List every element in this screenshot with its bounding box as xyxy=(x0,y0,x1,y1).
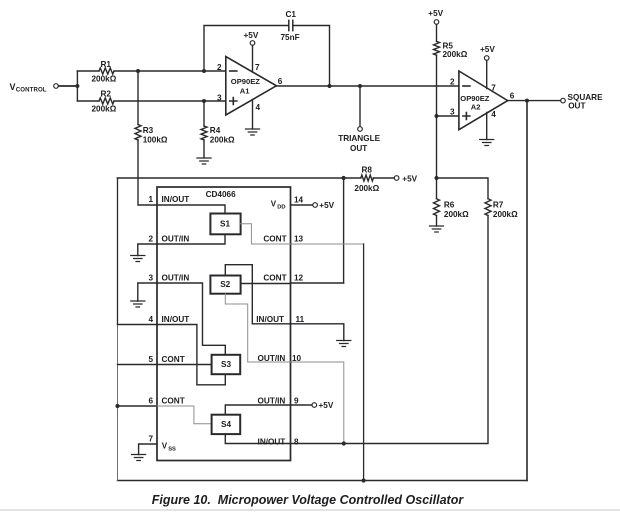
svg-text:CONT: CONT xyxy=(162,355,185,364)
svg-text:R5: R5 xyxy=(443,41,454,50)
wire R6 junction to R7 top xyxy=(437,178,489,199)
ground pin11 xyxy=(337,341,351,347)
switch S1 xyxy=(210,214,240,235)
wire top branch to R1 xyxy=(77,70,99,72)
resistor R8 xyxy=(361,175,374,181)
svg-text:9: 9 xyxy=(294,397,299,406)
wire S2 bottom to pin10 (gray) xyxy=(225,294,290,362)
wire pin13 vertical to bus xyxy=(363,244,365,481)
svg-text:CONT: CONT xyxy=(162,397,185,406)
svg-text:100kΩ: 100kΩ xyxy=(143,136,168,145)
node junction Vcontrol split xyxy=(75,84,79,88)
node junction pin10 line on pin8 wire xyxy=(342,441,346,445)
wire pin3 internal to S3 top xyxy=(157,283,225,355)
svg-text:IN/OUT: IN/OUT xyxy=(162,195,190,204)
node junction C1 right on output xyxy=(328,84,332,88)
wire C1 right to output xyxy=(293,26,330,87)
svg-text:V: V xyxy=(10,82,16,92)
node junction A2 output feedback xyxy=(525,99,529,103)
svg-text:200kΩ: 200kΩ xyxy=(443,50,468,59)
svg-text:3: 3 xyxy=(450,108,455,117)
wire S4 bottom to pin8 xyxy=(225,434,290,443)
node junction R4 top xyxy=(202,99,206,103)
wire CD4066 pin6 stub xyxy=(118,405,158,407)
wire R7 column down to pin8 row xyxy=(291,216,489,444)
svg-text:S1: S1 xyxy=(220,220,230,229)
op-amp A1 xyxy=(226,57,277,116)
wire A1 output xyxy=(276,85,459,87)
switch S4 xyxy=(212,415,241,434)
wire A2 pin3 xyxy=(437,115,459,117)
resistor R3 xyxy=(135,125,141,141)
wire R8 junction down to pin12 xyxy=(343,178,345,283)
node +5V terminal pin9 xyxy=(312,403,317,408)
svg-text:A2: A2 xyxy=(471,103,481,112)
wire triangle out drop xyxy=(359,86,361,127)
node +5V terminal R5 xyxy=(434,20,439,25)
svg-text:IN/OUT: IN/OUT xyxy=(256,315,284,324)
wire S1 bottom to pin2 xyxy=(157,234,225,244)
svg-text:7: 7 xyxy=(148,435,153,444)
wire R6 to ground xyxy=(436,216,438,227)
svg-text:SS: SS xyxy=(168,447,176,453)
svg-text:200kΩ: 200kΩ xyxy=(354,184,379,193)
svg-text:R7: R7 xyxy=(493,201,504,210)
svg-text:200kΩ: 200kΩ xyxy=(210,136,235,145)
svg-text:200kΩ: 200kΩ xyxy=(493,210,518,219)
node +5V terminal pin14 xyxy=(313,203,318,208)
node junction C1 left / pin2 xyxy=(202,69,206,73)
svg-text:S2: S2 xyxy=(220,280,230,289)
svg-text:4: 4 xyxy=(256,103,261,112)
svg-text:11: 11 xyxy=(296,315,305,324)
svg-text:CONT: CONT xyxy=(263,235,286,244)
node junction A2 pin3 xyxy=(435,114,439,118)
node junction pin13 line on bus xyxy=(362,478,366,482)
wire CD4066 pin9 to +5V xyxy=(291,404,313,406)
svg-text:2: 2 xyxy=(148,235,153,244)
wire bottom branch to R2 xyxy=(77,100,99,102)
svg-text:R8: R8 xyxy=(362,165,373,174)
svg-text:2: 2 xyxy=(450,78,455,87)
op-amp A2 xyxy=(459,71,508,130)
node TRIANGLE OUT terminal xyxy=(358,127,363,132)
svg-text:5: 5 xyxy=(148,355,153,364)
svg-text:A1: A1 xyxy=(240,87,250,96)
wire R8 to +5V xyxy=(373,177,394,179)
wire S1 control to pin13 (gray) xyxy=(241,224,291,244)
resistor R2 xyxy=(99,98,114,104)
svg-text:OUT: OUT xyxy=(350,144,367,153)
svg-text:7: 7 xyxy=(491,84,496,93)
svg-text:14: 14 xyxy=(294,195,304,204)
svg-text:CONT: CONT xyxy=(263,274,286,283)
svg-text:S4: S4 xyxy=(221,420,231,429)
svg-text:6: 6 xyxy=(148,397,153,406)
wire R5 top xyxy=(436,24,438,41)
svg-text:200kΩ: 200kΩ xyxy=(444,210,469,219)
svg-text:R3: R3 xyxy=(143,126,154,135)
svg-text:75nF: 75nF xyxy=(281,33,300,42)
wire bottom bus xyxy=(118,480,528,482)
wire S4 top to pin9 xyxy=(225,405,290,415)
node +5V terminal R8 xyxy=(394,176,399,181)
svg-text:4: 4 xyxy=(148,315,153,324)
wire splitter vertical xyxy=(76,71,78,101)
resistor R5 xyxy=(434,41,440,55)
svg-text:OUT/IN: OUT/IN xyxy=(258,354,286,363)
wire A1 pin7 xyxy=(252,45,254,71)
node junction R6 top xyxy=(435,176,439,180)
wire pin1 internal to S1 top xyxy=(157,205,225,214)
svg-text:+5V: +5V xyxy=(244,31,259,40)
ground pin7 xyxy=(132,455,146,461)
svg-text:TRIANGLE: TRIANGLE xyxy=(338,134,380,143)
svg-text:4: 4 xyxy=(491,110,496,119)
svg-text:C1: C1 xyxy=(286,10,297,19)
svg-text:IN/OUT: IN/OUT xyxy=(258,437,286,446)
svg-text:R4: R4 xyxy=(210,126,221,135)
svg-text:R6: R6 xyxy=(444,201,455,210)
svg-text:SQUARE: SQUARE xyxy=(568,93,604,102)
resistor R4 xyxy=(201,126,207,140)
wire R3 column upper xyxy=(137,71,139,125)
svg-text:+5V: +5V xyxy=(480,45,495,54)
node junction pin6 on left vertical xyxy=(115,404,119,408)
node SQUARE OUT terminal xyxy=(561,98,566,103)
svg-text:Figure 10. Micropower Voltage: Figure 10. Micropower Voltage Controlled… xyxy=(152,493,465,507)
svg-text:CONTROL: CONTROL xyxy=(16,87,47,94)
svg-text:3: 3 xyxy=(148,274,153,283)
wire CD4066 pin12 stub xyxy=(291,282,344,284)
wire R2 to A1 pin3 xyxy=(114,100,226,102)
wire R4 column xyxy=(203,101,205,126)
wire CD4066 pin3 stub to ground xyxy=(138,283,157,301)
wire R4 to ground xyxy=(203,140,205,158)
wire S2 top to pin11 xyxy=(225,265,290,324)
ground R6 xyxy=(430,226,444,232)
ground pin2 xyxy=(131,256,145,262)
svg-text:7: 7 xyxy=(255,63,260,72)
svg-text:200kΩ: 200kΩ xyxy=(92,105,117,114)
wire R8 row xyxy=(118,177,361,179)
CD4066 IC U1 xyxy=(157,187,291,461)
wire A2 pin7 xyxy=(486,60,488,88)
ground A1 pin4 xyxy=(246,129,260,135)
svg-text:12: 12 xyxy=(294,274,304,283)
svg-text:200kΩ: 200kΩ xyxy=(92,75,117,84)
svg-text:+5V: +5V xyxy=(319,401,334,410)
resistor R7 xyxy=(485,199,491,216)
wire CD4066 pin11 stub to ground xyxy=(291,324,344,341)
ground R4 xyxy=(197,158,211,164)
CD4066 outline xyxy=(157,187,291,461)
svg-text:S3: S3 xyxy=(221,360,231,369)
svg-text:OP90EZ: OP90EZ xyxy=(231,77,260,86)
bottom rule xyxy=(0,509,620,511)
node Vcontrol input terminal xyxy=(54,84,59,89)
svg-text:OUT/IN: OUT/IN xyxy=(258,397,286,406)
wire pin6 internal to S4 control (gray) xyxy=(157,406,212,424)
svg-text:3: 3 xyxy=(217,94,222,103)
wire C1 feedback left xyxy=(204,26,289,72)
svg-text:R1: R1 xyxy=(101,60,112,69)
wire A2 output xyxy=(508,100,561,102)
svg-text:OUT: OUT xyxy=(568,102,585,111)
svg-text:R2: R2 xyxy=(101,90,112,99)
resistor R1 xyxy=(99,68,114,74)
svg-text:1: 1 xyxy=(148,195,153,204)
wire pin13 control out (gray) xyxy=(291,243,364,245)
switch S2 xyxy=(210,276,240,294)
svg-text:DD: DD xyxy=(277,205,285,211)
wire CD4066 pin5 stub xyxy=(118,364,158,366)
svg-text:8: 8 xyxy=(294,437,299,446)
capacitor C1 xyxy=(289,20,293,30)
svg-text:+5V: +5V xyxy=(319,201,334,210)
node junction R8 xyxy=(342,176,346,180)
node +5V terminal A2 pin7 xyxy=(484,56,489,61)
wire left CONT vertical xyxy=(117,178,119,325)
node junction triangle out xyxy=(358,84,362,88)
svg-text:10: 10 xyxy=(292,354,302,363)
wire R3 to CD4066 pin1 xyxy=(138,140,157,205)
svg-text:13: 13 xyxy=(294,235,304,244)
svg-text:6: 6 xyxy=(510,92,515,101)
node +5V terminal A1 pin7 xyxy=(250,41,255,46)
ground A2 pin4 xyxy=(480,140,494,146)
wire A1 pin4 to ground xyxy=(252,100,254,129)
wire CD4066 pin14 to +5V xyxy=(291,204,313,206)
svg-text:IN/OUT: IN/OUT xyxy=(162,315,190,324)
wire R1 to A1 pin2 xyxy=(114,70,226,72)
svg-text:6: 6 xyxy=(278,77,283,86)
wire pin4 internal to S3 bottom xyxy=(157,325,225,385)
node junction R3 top xyxy=(136,69,140,73)
svg-text:+5V: +5V xyxy=(428,9,443,18)
switch S3 xyxy=(212,355,241,374)
resistor R6 xyxy=(434,199,440,216)
wire pin5 internal to S3 control xyxy=(157,364,212,366)
wire CD4066 pin4 stub xyxy=(118,324,158,326)
wire S2 control to pin12 xyxy=(241,283,291,285)
svg-text:CD4066: CD4066 xyxy=(206,190,236,199)
wire CD4066 pin2 stub to ground xyxy=(138,244,157,256)
svg-text:OUT/IN: OUT/IN xyxy=(162,235,190,244)
svg-text:OUT/IN: OUT/IN xyxy=(162,274,190,283)
svg-text:2: 2 xyxy=(217,63,222,72)
wire Vcontrol to splitter xyxy=(59,85,78,87)
svg-text:V: V xyxy=(162,441,168,450)
ground pin3 xyxy=(131,301,145,307)
wire square feedback down right side xyxy=(526,101,528,481)
wire pin10 out (gray) to pin8 row xyxy=(291,362,344,444)
wire R5 column down through pin3 node to R6 xyxy=(436,55,438,199)
wire CD4066 pin7 stub to ground xyxy=(139,444,157,455)
svg-text:V: V xyxy=(271,200,277,209)
svg-text:+5V: +5V xyxy=(402,174,417,183)
wire A2 pin4 to ground xyxy=(486,112,488,139)
